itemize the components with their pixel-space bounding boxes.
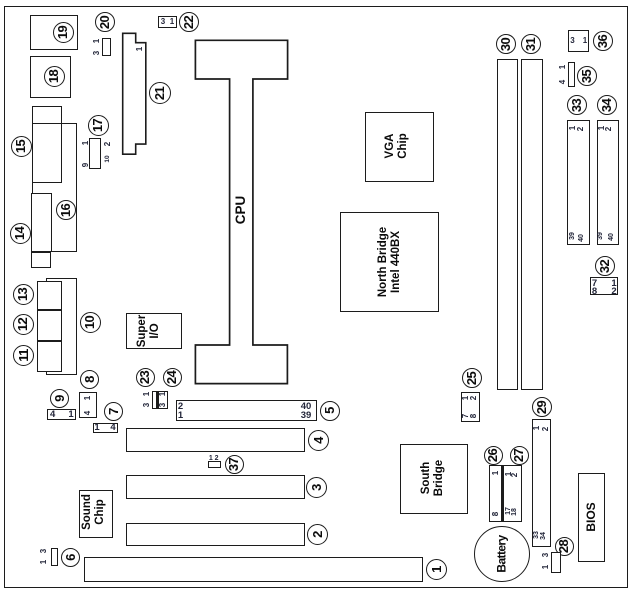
- connector 36 body: [568, 30, 589, 52]
- battery body: [474, 526, 530, 582]
- callout 2: [307, 524, 328, 545]
- header 17 body: [89, 138, 101, 169]
- CPU slot body: [193, 38, 290, 386]
- jumper 23 pin 3 label: [141, 395, 151, 415]
- connector 22 body: [158, 16, 177, 28]
- header 27 pin 17 label: [503, 501, 513, 521]
- header 26 pin 1 label: [490, 463, 500, 483]
- jumper 23 pin 1 label: [141, 384, 151, 404]
- header 17 pin 9 label: [80, 155, 90, 175]
- connector 22 pin 1 label: [162, 17, 182, 27]
- VGA chip label: [372, 116, 422, 176]
- connector 21 body: [119, 29, 150, 159]
- header 25 body: [461, 392, 480, 422]
- callout 30: [496, 34, 516, 54]
- jumper 23 body: [152, 391, 158, 409]
- callout 22: [179, 12, 199, 32]
- header 26 pin 8 label: [490, 504, 500, 524]
- callout 21: [149, 82, 171, 104]
- header 29 pin 34 label: [538, 526, 548, 546]
- header 17 pin 1 label: [80, 133, 90, 153]
- callout 35: [577, 66, 597, 86]
- header 27 pin 1 label: [503, 464, 513, 484]
- connector 28 body: [551, 552, 561, 573]
- connector 5 pin 39 label: [296, 411, 316, 421]
- port 14 lower body: [31, 252, 51, 268]
- callout 33: [567, 95, 587, 115]
- callout 17: [88, 115, 109, 136]
- callout 28: [555, 537, 574, 556]
- slot 4 body: [126, 428, 305, 452]
- jumper 24 pin 3 label: [157, 395, 167, 415]
- connector 33 pin 1 label: [567, 118, 577, 138]
- header 8 pin 4 label: [82, 403, 92, 423]
- slot 2 body: [126, 523, 305, 546]
- callout 1: [426, 559, 447, 580]
- connector 5 pin 40 label: [296, 402, 316, 412]
- connector 22 pin 3 label: [153, 17, 173, 27]
- jack divider 1: [37, 309, 62, 311]
- header 17 pin 10 label: [102, 149, 112, 169]
- VGA chip body: [365, 112, 435, 182]
- header 7 pin 1 label: [87, 423, 107, 433]
- slot 3 body: [126, 475, 305, 499]
- port 14 body: [31, 193, 52, 252]
- connector 21 pin 1 label: [134, 39, 144, 59]
- header 32 pin 7 label: [585, 279, 605, 289]
- Sound Chip body: [79, 490, 113, 538]
- header 8 pin 1 label: [82, 388, 92, 408]
- chip 19 body: [30, 15, 78, 50]
- callout 4: [308, 430, 329, 451]
- connector 34 pin 40 label: [606, 227, 616, 247]
- callout 32: [595, 256, 615, 276]
- Super I/O chip body: [126, 313, 182, 349]
- connector 33 pin 39 label: [567, 226, 577, 246]
- jumper 37 body: [208, 461, 221, 468]
- header 26 body: [489, 465, 502, 522]
- callout 27: [510, 446, 529, 465]
- header 27 pin 18 label: [509, 502, 519, 522]
- connector 34 body: [597, 120, 619, 245]
- DIMM 31 body: [521, 59, 543, 390]
- header 9 body: [47, 409, 76, 420]
- connector 35 pin 1 label: [557, 57, 567, 77]
- connector 35 pin 4 label: [557, 72, 567, 92]
- callout 3: [306, 477, 327, 498]
- connector 6 pin 3 label: [38, 541, 48, 561]
- connector 34 pin 2 label: [603, 119, 613, 139]
- connector 33 body: [567, 120, 590, 245]
- callout 37: [225, 455, 244, 474]
- connector 28 pin 3 label: [540, 545, 550, 565]
- header 29 pin 2 label: [540, 419, 550, 439]
- callout 9: [50, 389, 69, 408]
- callout 5: [320, 401, 340, 421]
- header 29 pin 33 label: [531, 525, 541, 545]
- callout 15: [11, 136, 32, 157]
- header 25 pin 1 label: [460, 388, 470, 408]
- header 25 pin 7 label: [460, 406, 470, 426]
- callout 19: [53, 22, 74, 43]
- header 17 pin 2 label: [102, 134, 112, 154]
- header 27 body: [503, 465, 522, 522]
- CPU label: [221, 180, 261, 240]
- callout 20: [95, 12, 115, 32]
- connector 5 pin 2 label: [171, 401, 191, 411]
- port 15 lower body: [32, 123, 62, 183]
- BIOS label: [578, 487, 604, 547]
- connector 6 pin 1 label: [38, 552, 48, 572]
- connector 6 body: [51, 548, 58, 566]
- South Bridge body: [400, 444, 468, 514]
- Super I/O label: [124, 301, 174, 361]
- connector 33 pin 40 label: [576, 228, 586, 248]
- DIMM 30 body: [497, 59, 518, 390]
- connector 5 body: [176, 400, 317, 421]
- callout 7: [104, 402, 123, 421]
- header 29 pin 1 label: [531, 418, 541, 438]
- callout 29: [532, 397, 552, 417]
- callout 12: [13, 314, 34, 335]
- South Bridge label: [403, 448, 463, 508]
- callout 23: [136, 368, 155, 387]
- header 26/27 divider: [501, 465, 504, 522]
- callout 16: [56, 200, 76, 220]
- connector 36 pin 3 label: [563, 35, 583, 45]
- North Bridge label: [350, 217, 430, 307]
- header 9 pin 1 label: [61, 409, 81, 419]
- header 9 pin 4 label: [43, 409, 63, 419]
- jumper 37 pin 1 label: [201, 454, 221, 464]
- callout 18: [44, 66, 65, 87]
- connector 35 body: [568, 62, 575, 87]
- header 27 pin 2 label: [509, 465, 519, 485]
- callout 25: [462, 368, 482, 388]
- callout 31: [521, 34, 541, 54]
- connector 34 pin 1 label: [596, 118, 606, 138]
- header 25 pin 2 label: [468, 388, 478, 408]
- jumper divider: [156, 391, 159, 409]
- connector 20 body: [102, 38, 111, 56]
- header 7 pin 4 label: [103, 423, 123, 433]
- jack column body: [37, 281, 62, 372]
- jumper 24 body: [157, 391, 168, 409]
- North Bridge body: [340, 212, 439, 312]
- jumper 37 pin 2 label: [207, 454, 227, 464]
- header 29 body: [532, 419, 551, 547]
- header 8 body: [79, 392, 97, 418]
- connector 20 pin 1 label: [91, 31, 101, 51]
- header 32 body: [590, 277, 618, 295]
- callout 6: [61, 548, 80, 567]
- chip 18 body: [30, 56, 71, 98]
- connector 20 pin 3 label: [91, 43, 101, 63]
- connector 5 pin 1 label: [171, 410, 191, 420]
- callout 13: [13, 284, 34, 305]
- connector 36 pin 1 label: [575, 35, 595, 45]
- slot 1 body: [84, 557, 423, 582]
- header 25 pin 8 label: [468, 406, 478, 426]
- header 32 pin 8 label: [585, 287, 605, 297]
- header 7 body: [93, 423, 118, 433]
- Sound Chip label: [69, 482, 119, 542]
- connector 33 pin 2 label: [575, 119, 585, 139]
- jack divider 2: [37, 340, 62, 342]
- connector 16 body: [32, 123, 77, 252]
- callout 8: [80, 370, 99, 389]
- jumper 24 pin 1 label: [157, 384, 167, 404]
- header 32 pin 1 label: [604, 279, 624, 289]
- callout 10: [80, 312, 101, 333]
- connector 34 pin 39 label: [595, 226, 605, 246]
- connector 28 pin 1 label: [540, 557, 550, 577]
- callout 34: [597, 95, 617, 115]
- header 32 pin 2 label: [604, 287, 624, 297]
- callout 24: [163, 368, 182, 387]
- connector 10 body: [46, 278, 77, 375]
- callout 14: [10, 223, 31, 244]
- callout 26: [484, 446, 503, 465]
- BIOS body: [578, 473, 605, 562]
- callout 11: [13, 345, 34, 366]
- callout 36: [593, 31, 613, 51]
- port 15 upper body: [32, 106, 62, 124]
